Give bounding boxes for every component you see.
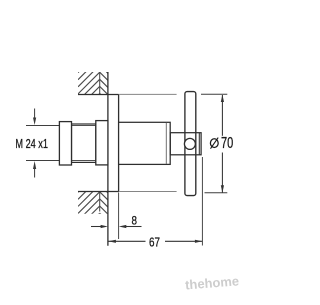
wall hatch bottom block herringbone <box>78 171 108 235</box>
threaded pipe minor thread lines <box>72 125 96 127</box>
handle bar cross arms side view <box>185 92 196 196</box>
label dia symbol <box>210 138 218 149</box>
wall face line <box>107 72 109 246</box>
svg-text:67: 67 <box>149 234 160 249</box>
svg-text:M 24 x1: M 24 x1 <box>15 137 48 151</box>
escutcheon rosette top edge with hatch border <box>78 94 119 96</box>
svg-text:8: 8 <box>132 215 138 228</box>
dia70 dimension line with arrows <box>221 95 224 193</box>
reference line bottom rosette dia extended <box>119 191 176 193</box>
M24 thread extension line top <box>26 124 59 126</box>
reference line top rosette dia extended <box>119 93 176 95</box>
inlet flange ring <box>59 122 71 165</box>
wall hatch bottom center line <box>99 192 101 212</box>
M24 dimension arrow top <box>33 109 36 126</box>
M24 thread extension line bottom <box>26 160 59 162</box>
hub face inner line <box>198 133 200 155</box>
escutcheon face line <box>118 94 120 191</box>
sleeve cylinder <box>119 122 171 164</box>
wall hatch top block herringbone <box>78 51 108 115</box>
dia70 extension line top <box>201 93 227 95</box>
dia70 extension line bottom <box>205 192 228 194</box>
svg-text:70: 70 <box>221 135 233 152</box>
dim 8 left arrow <box>91 225 108 228</box>
dim 8 right arrow <box>119 225 142 228</box>
threaded pipe outer <box>72 124 96 162</box>
handle hub <box>170 133 201 155</box>
ext line 8 escutcheon face <box>118 193 120 240</box>
sleeve end ring line <box>165 123 167 164</box>
escutcheon rosette bottom edge with hatch border <box>78 191 119 193</box>
in-wall valve body <box>96 121 108 165</box>
wall hatch top center line <box>99 72 101 94</box>
hub front arm circle <box>184 138 195 149</box>
ext line 67 hub face <box>201 157 203 246</box>
dim 67 line with arrows <box>108 240 202 243</box>
M24 dimension arrow bottom <box>33 161 36 178</box>
